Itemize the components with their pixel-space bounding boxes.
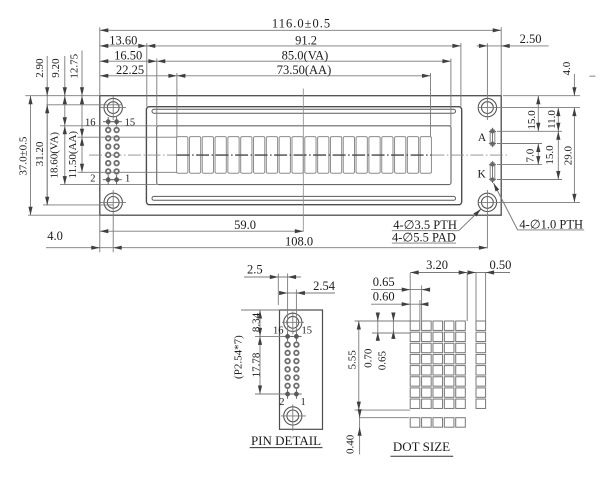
svg-text:3.20: 3.20	[426, 258, 448, 272]
svg-text:73.50(AA): 73.50(AA)	[277, 63, 332, 77]
svg-text:2.5: 2.5	[247, 263, 263, 277]
svg-text:2.54: 2.54	[313, 279, 336, 293]
svg-text:17.78: 17.78	[250, 352, 262, 377]
svg-text:8.34: 8.34	[250, 312, 262, 332]
svg-text:0.70: 0.70	[363, 348, 375, 368]
svg-text:DOT SIZE: DOT SIZE	[393, 439, 450, 454]
svg-text:K: K	[477, 169, 486, 181]
svg-text:2.90: 2.90	[34, 58, 46, 78]
svg-text:A: A	[478, 132, 487, 144]
svg-text:11.50(AA): 11.50(AA)	[67, 131, 79, 179]
svg-text:2.50: 2.50	[520, 32, 542, 46]
svg-text:59.0: 59.0	[234, 218, 256, 232]
svg-text:18.60(VA): 18.60(VA)	[49, 132, 61, 179]
svg-text:85.0(VA): 85.0(VA)	[282, 49, 329, 63]
svg-text:108.0: 108.0	[285, 235, 313, 249]
svg-text:22.25: 22.25	[116, 63, 144, 77]
svg-text:(P2.54*7): (P2.54*7)	[233, 335, 245, 379]
svg-text:116.0±0.5: 116.0±0.5	[272, 17, 331, 31]
svg-text:15.0: 15.0	[544, 145, 556, 165]
svg-text:2: 2	[279, 397, 284, 408]
svg-text:16: 16	[85, 117, 96, 128]
svg-text:9.20: 9.20	[50, 58, 62, 78]
svg-text:0.65: 0.65	[376, 350, 388, 370]
svg-text:15: 15	[125, 117, 136, 128]
svg-text:5.55: 5.55	[347, 350, 359, 370]
svg-text:29.0: 29.0	[563, 145, 575, 165]
svg-text:15.0: 15.0	[526, 110, 538, 130]
svg-text:31.20: 31.20	[34, 141, 46, 166]
svg-text:4-∅5.5 PAD: 4-∅5.5 PAD	[392, 231, 456, 245]
svg-text:13.60: 13.60	[109, 33, 137, 47]
svg-text:4-∅1.0 PTH: 4-∅1.0 PTH	[519, 218, 583, 232]
svg-text:2: 2	[90, 174, 95, 185]
svg-text:0.50: 0.50	[489, 258, 511, 272]
svg-text:12.75: 12.75	[69, 53, 81, 78]
svg-text:7.0: 7.0	[525, 148, 537, 162]
svg-text:16: 16	[273, 325, 284, 336]
svg-text:16.50: 16.50	[114, 49, 142, 63]
svg-text:4.0: 4.0	[47, 229, 63, 243]
svg-text:4.0: 4.0	[561, 61, 573, 75]
svg-text:0.65: 0.65	[373, 275, 395, 289]
svg-text:PIN DETAIL: PIN DETAIL	[251, 433, 321, 448]
svg-text:11.0: 11.0	[546, 110, 558, 129]
svg-text:1: 1	[125, 174, 130, 185]
svg-text:0.60: 0.60	[373, 290, 395, 304]
svg-text:1: 1	[301, 397, 306, 408]
svg-text:37.0±0.5: 37.0±0.5	[18, 136, 30, 176]
svg-text:91.2: 91.2	[295, 33, 317, 47]
svg-text:15: 15	[302, 325, 313, 336]
svg-text:0.40: 0.40	[345, 434, 357, 454]
